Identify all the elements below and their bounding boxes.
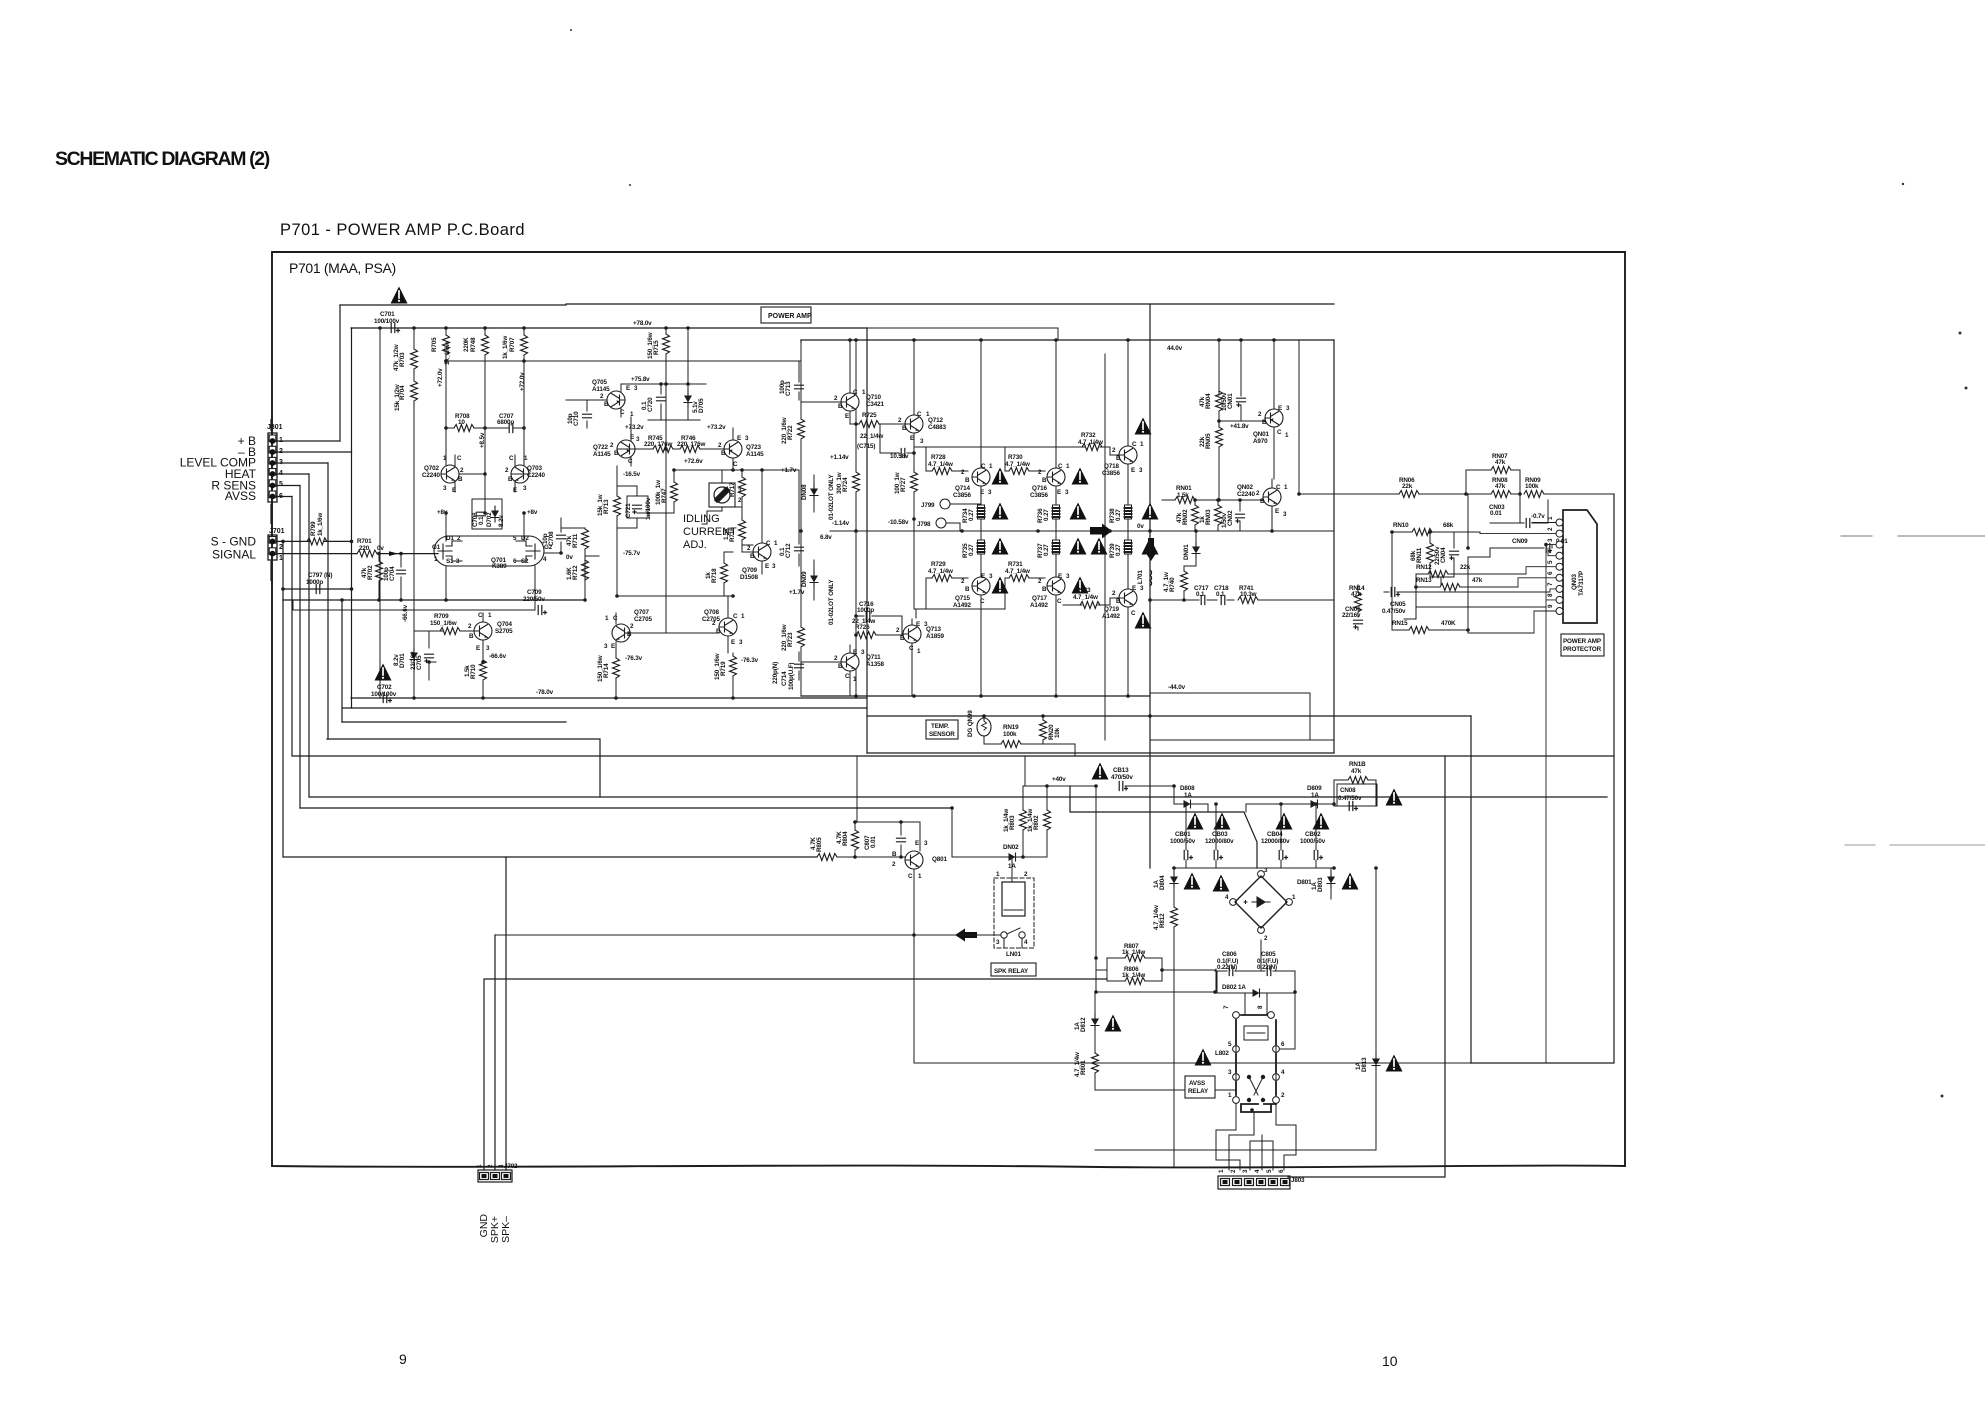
svg-text:R701: R701: [357, 538, 372, 545]
svg-text:0v: 0v: [566, 554, 573, 561]
wire temp row y716: [867, 715, 1471, 717]
svg-text:ADJ.: ADJ.: [683, 539, 707, 551]
svg-text:1: 1: [918, 873, 922, 880]
svg-text:Q711: Q711: [866, 654, 881, 661]
svg-text:C: C: [845, 673, 850, 680]
svg-text:E: E: [910, 435, 914, 442]
svg-text:D808: D808: [1180, 785, 1195, 792]
warnings caps row: [1187, 813, 1330, 830]
wire bus y756: [293, 755, 1614, 757]
resistor R728: [931, 454, 952, 475]
svg-text:470/50v: 470/50v: [1111, 774, 1133, 781]
resistor R724: [836, 424, 860, 531]
svg-text:15k_1/2w: 15k_1/2w: [394, 384, 401, 411]
resistor RN20: [1040, 716, 1062, 744]
thermistor DG QN99: [967, 710, 991, 737]
svg-text:68k: 68k: [1443, 522, 1454, 529]
svg-text:1: 1: [1292, 894, 1296, 901]
svg-text:PROTECTOR: PROTECTOR: [1563, 646, 1602, 653]
transistor Q710: [834, 340, 884, 424]
transistor Q714: [953, 453, 993, 500]
left arrow spk: [955, 929, 977, 942]
svg-text:P701 - POWER AMP P.C.Board: P701 - POWER AMP P.C.Board: [280, 221, 525, 239]
svg-text:47k: 47k: [1495, 483, 1506, 490]
svg-text:0.27: 0.27: [1115, 509, 1122, 521]
svg-text:SPK RELAY: SPK RELAY: [994, 968, 1029, 975]
svg-text:A1492: A1492: [1030, 602, 1048, 609]
svg-text:RN05: RN05: [1205, 433, 1212, 449]
svg-text:+40v: +40v: [1052, 776, 1066, 783]
capacitor CN05 label: [1382, 601, 1406, 615]
svg-text:220/50v: 220/50v: [523, 596, 545, 603]
resistor R719: [714, 653, 737, 698]
svg-text:220K: 220K: [463, 337, 470, 352]
wire inner box left x867: [866, 328, 868, 753]
svg-text:7: 7: [1223, 1005, 1230, 1009]
wire right net verticals: [1358, 494, 1548, 630]
svg-text:E: E: [476, 645, 480, 652]
svg-text:S - GND: S - GND: [211, 535, 257, 549]
wire +40v rail: [1023, 756, 1096, 810]
svg-text:1.5k: 1.5k: [723, 528, 730, 540]
wire temp sensor row: [984, 716, 1075, 756]
resistor RN10: [1392, 522, 1480, 536]
svg-text:RN1B: RN1B: [1349, 761, 1366, 768]
svg-text:C3856: C3856: [1030, 492, 1048, 499]
svg-text:220p(N): 220p(N): [772, 662, 779, 684]
svg-text:B: B: [750, 553, 755, 560]
wire -78v bottom rail: [351, 697, 867, 699]
transistor Q723: [718, 428, 764, 470]
svg-text:1A: 1A: [1153, 880, 1160, 888]
svg-text:0v: 0v: [1137, 523, 1144, 530]
svg-text:E: E: [1275, 508, 1279, 515]
wire RN02 row top: [1195, 499, 1263, 501]
svg-text:+73.2v: +73.2v: [625, 424, 644, 431]
svg-text:B: B: [716, 628, 721, 635]
resistor R703: [393, 328, 418, 376]
svg-text:D813: D813: [1361, 1057, 1368, 1072]
node label -66.6v h: [489, 653, 507, 660]
svg-text:220_176w: 220_176w: [677, 441, 705, 448]
svg-text:3: 3: [989, 573, 993, 580]
bridge D801: [1235, 876, 1287, 928]
wire Q705 emitter row: [621, 328, 706, 394]
svg-text:100k: 100k: [1525, 483, 1539, 490]
wire centre box right: [1333, 340, 1335, 753]
svg-text:1k_1/4w: 1k_1/4w: [1122, 949, 1145, 956]
svg-text:3: 3: [772, 563, 776, 570]
svg-text:1000p: 1000p: [857, 607, 874, 614]
node label 0v: [566, 554, 573, 561]
svg-text:E: E: [1278, 405, 1282, 412]
resistor RN19: [984, 724, 1043, 748]
resistor R727: [894, 447, 918, 519]
svg-text:1k: 1k: [705, 572, 712, 579]
svg-text:2: 2: [747, 545, 751, 552]
wire RN18 col: [1334, 780, 1376, 806]
resistor R812: [1153, 899, 1178, 944]
svg-text:R733: R733: [1076, 587, 1091, 594]
svg-text:22k: 22k: [1402, 483, 1413, 490]
resistor R807: [1107, 943, 1162, 962]
svg-text:0.22(N): 0.22(N): [1257, 964, 1277, 971]
node label -10.58v: [888, 519, 909, 526]
capacitor C712: [779, 536, 804, 566]
svg-text:B: B: [1116, 455, 1121, 462]
resistor R715: [647, 328, 670, 392]
resistor RN14: [1349, 585, 1365, 617]
svg-text:Q712: Q712: [928, 417, 943, 424]
svg-text:9: 9: [399, 1351, 407, 1367]
svg-text:10/50v: 10/50v: [1221, 392, 1228, 411]
svg-text:2: 2: [834, 395, 838, 402]
capacitor C806: [1215, 951, 1265, 976]
wires driver col: [617, 449, 801, 612]
resistor R725 value: [860, 433, 883, 440]
svg-text:2: 2: [896, 627, 900, 634]
resistor R701: [357, 538, 384, 557]
svg-text:C: C: [766, 540, 771, 547]
svg-text:1: 1: [488, 612, 492, 619]
svg-text:4.7_1w: 4.7_1w: [1163, 572, 1170, 592]
resistor R731: [1005, 561, 1030, 582]
svg-text:D705: D705: [698, 398, 705, 413]
resistor RN12: [1416, 564, 1526, 578]
svg-text:1: 1: [476, 1164, 483, 1168]
svg-text:C2240: C2240: [1237, 491, 1255, 498]
capacitor CN06: [1342, 606, 1363, 630]
svg-text:1: 1: [1218, 1169, 1225, 1173]
resistor R711: [566, 528, 589, 556]
striped resistor R734: [962, 505, 985, 523]
svg-text:+8v: +8v: [527, 509, 538, 516]
svg-text:1A: 1A: [1184, 792, 1192, 799]
svg-text:220: 220: [359, 545, 370, 552]
coil L701: [1137, 562, 1152, 593]
transistor Q709: [740, 470, 778, 581]
svg-text:RN13: RN13: [1416, 577, 1432, 584]
svg-text:3: 3: [634, 385, 638, 392]
svg-text:-16.5v: -16.5v: [623, 471, 641, 478]
svg-text:A1358: A1358: [866, 661, 884, 668]
svg-text:47k_1/2w: 47k_1/2w: [393, 344, 400, 371]
svg-text:CB02: CB02: [1305, 831, 1321, 838]
svg-text:R803: R803: [1009, 815, 1016, 830]
svg-text:R702: R702: [367, 565, 374, 580]
svg-text:3: 3: [739, 639, 743, 646]
TEMP SENSOR box: [926, 720, 958, 739]
warning Q718: [1135, 418, 1152, 435]
wire spk arrow row: [495, 857, 1012, 935]
svg-text:A1492: A1492: [1102, 613, 1120, 620]
svg-text:3: 3: [745, 435, 749, 442]
svg-text:Q713: Q713: [926, 626, 941, 633]
svg-text:5: 5: [279, 481, 283, 488]
resistor RN04: [1199, 391, 1223, 421]
warning R734: [992, 503, 1009, 520]
node label +41.8v: [1230, 423, 1249, 430]
warning Q714: [992, 468, 1009, 485]
svg-text:10: 10: [458, 419, 465, 426]
diode D802: [1217, 984, 1295, 997]
svg-text:1A: 1A: [1311, 792, 1319, 799]
warning triangle C702: [375, 664, 392, 681]
svg-text:B: B: [1260, 498, 1265, 505]
svg-text:100/100v: 100/100v: [371, 691, 397, 698]
resistor R806: [1107, 966, 1162, 985]
resistor R745: [644, 435, 673, 453]
svg-text:E: E: [1132, 585, 1136, 592]
wire output to right: [1271, 506, 1273, 531]
svg-text:68k: 68k: [1410, 550, 1417, 561]
svg-text:G1: G1: [432, 544, 441, 551]
down arrow output: [1145, 538, 1158, 561]
wire 78v jog to 44v rail: [867, 328, 1299, 494]
wire Q707-Q708 bases: [630, 392, 719, 633]
svg-text:+41.8v: +41.8v: [1230, 423, 1249, 430]
svg-text:5: 5: [1547, 560, 1554, 564]
svg-text:CN09: CN09: [1512, 538, 1528, 545]
svg-text:D1508: D1508: [740, 574, 758, 581]
svg-text:E: E: [630, 434, 634, 441]
svg-text:C2705: C2705: [634, 616, 652, 623]
svg-text:1u/100v: 1u/100v: [645, 497, 652, 520]
svg-text:C: C: [980, 598, 985, 605]
svg-text:Q714: Q714: [955, 485, 970, 492]
node label +1.7v lower: [789, 589, 805, 596]
svg-text:2: 2: [961, 578, 965, 585]
svg-text:150_1/6w: 150_1/6w: [597, 655, 604, 682]
node label +40v: [1052, 776, 1066, 783]
svg-text:R729: R729: [931, 561, 946, 568]
svg-text:C: C: [1058, 463, 1063, 470]
node label +72.0v: [437, 368, 526, 391]
svg-text:1: 1: [1066, 463, 1070, 470]
node label -76.3v q707: [625, 655, 643, 662]
svg-text:RN19: RN19: [1003, 724, 1019, 731]
svg-text:100k: 100k: [1003, 731, 1017, 738]
svg-text:0.1: 0.1: [1216, 591, 1225, 598]
warning D804: [1184, 873, 1201, 890]
svg-text:100_1w: 100_1w: [894, 472, 901, 494]
svg-text:C4883: C4883: [928, 424, 946, 431]
svg-text:1: 1: [524, 455, 528, 462]
svg-text:1k_1/4w: 1k_1/4w: [1027, 809, 1034, 832]
svg-text:22_1/4w: 22_1/4w: [852, 618, 875, 625]
connector J803: [1218, 1176, 1305, 1189]
svg-text:1: 1: [989, 463, 993, 470]
resistor R801: [1074, 1042, 1099, 1090]
svg-text:QN01: QN01: [1253, 431, 1269, 438]
node label +8.5v: [479, 432, 486, 448]
svg-text:100/100v: 100/100v: [374, 318, 400, 325]
transistor Q715: [953, 565, 993, 610]
svg-text:B: B: [469, 633, 474, 640]
svg-text:R703: R703: [399, 352, 406, 367]
SPK RELAY box: [991, 963, 1036, 976]
node label -75.7v: [623, 550, 641, 557]
wire C705 base: [414, 631, 443, 662]
svg-text:1A: 1A: [1074, 1022, 1081, 1030]
svg-text:L802: L802: [1215, 1050, 1229, 1057]
svg-text:R707: R707: [509, 337, 516, 352]
svg-text:2: 2: [1112, 590, 1116, 597]
node label +1.7v: [781, 467, 797, 474]
svg-text:C: C: [981, 463, 986, 470]
svg-text:3: 3: [1286, 405, 1290, 412]
svg-text:6: 6: [1547, 571, 1554, 575]
node label +75.8v: [631, 376, 650, 383]
svg-text:3: 3: [1547, 538, 1554, 542]
svg-text:3: 3: [1140, 585, 1144, 592]
resistor R729: [928, 561, 953, 582]
diode DN01: [1183, 531, 1200, 566]
svg-text:S2705: S2705: [495, 628, 513, 635]
junction dots output: [799, 338, 1130, 698]
svg-text:100p: 100p: [383, 567, 390, 581]
svg-text:C: C: [1057, 598, 1062, 605]
svg-text:150_1/6w: 150_1/6w: [430, 620, 457, 627]
svg-text:1: 1: [1284, 484, 1288, 491]
svg-text:4: 4: [279, 470, 283, 477]
svg-text:+1.14v: +1.14v: [830, 454, 849, 461]
node label -1.14v: [832, 520, 850, 527]
junction dots QN: [1148, 338, 1276, 718]
warning R737 pair: [1070, 538, 1108, 555]
resistor RN03: [1199, 500, 1222, 531]
node label -76.3v q708: [741, 657, 759, 664]
wire R806 R807 loop: [1096, 958, 1215, 981]
svg-text:A1145: A1145: [593, 451, 611, 458]
resistor RN02: [1176, 500, 1199, 531]
svg-text:R715: R715: [653, 340, 660, 355]
scan artifacts right edge: [1841, 536, 1985, 845]
J801 pin labels: [180, 434, 257, 562]
svg-text:QN03: QN03: [1571, 574, 1578, 590]
svg-text:2: 2: [961, 469, 965, 476]
svg-text:C805: C805: [1261, 951, 1276, 958]
svg-text:+1.7v: +1.7v: [781, 467, 797, 474]
node label +8v: [437, 509, 538, 516]
striped resistor R735: [962, 540, 985, 558]
wire bus y808: [300, 807, 952, 809]
transistor Q705: [592, 379, 638, 418]
relay contacts LN01: [1001, 928, 1025, 938]
svg-text:0.01: 0.01: [870, 836, 877, 848]
svg-text:22/16v: 22/16v: [1342, 612, 1361, 619]
capacitor CB02: [1300, 831, 1326, 860]
svg-text:C721: C721: [625, 503, 632, 518]
wire centre box top: [801, 339, 1334, 341]
svg-text:Q703: Q703: [527, 465, 542, 472]
svg-text:1: 1: [279, 555, 283, 562]
resistor R802: [1027, 809, 1051, 857]
svg-text:P701 (MAA, PSA): P701 (MAA, PSA): [289, 260, 396, 276]
svg-text:C806: C806: [1222, 951, 1237, 958]
svg-text:3: 3: [988, 489, 992, 496]
transistor QN02: [1237, 479, 1288, 531]
warning R738: [1142, 503, 1159, 520]
svg-text:-10.58v: -10.58v: [888, 519, 909, 526]
svg-text:Q705: Q705: [592, 379, 607, 386]
svg-text:C: C: [908, 873, 913, 880]
capacitor CB03: [1205, 831, 1234, 860]
svg-text:1: 1: [996, 871, 1000, 878]
svg-text:B: B: [614, 450, 619, 457]
svg-text:2: 2: [630, 623, 634, 630]
svg-text:1: 1: [917, 648, 921, 655]
svg-text:R748: R748: [470, 337, 477, 352]
resistor R714: [597, 655, 620, 698]
svg-text:2: 2: [460, 467, 464, 474]
svg-text:0.1: 0.1: [779, 547, 786, 556]
svg-text:8: 8: [1257, 1005, 1264, 1009]
svg-text:C3421: C3421: [866, 401, 884, 408]
svg-text:2: 2: [279, 544, 283, 551]
node label -78.0v: [536, 689, 554, 696]
svg-text:4.7K: 4.7K: [810, 837, 817, 850]
svg-text:J798: J798: [917, 521, 931, 528]
svg-text:4: 4: [543, 556, 547, 563]
resistor R710: [464, 660, 487, 698]
svg-text:C: C: [509, 455, 514, 462]
svg-text:D801: D801: [1297, 879, 1312, 886]
svg-text:D702: D702: [486, 512, 493, 527]
svg-text:C710: C710: [573, 411, 580, 426]
svg-text:47k: 47k: [1176, 512, 1183, 523]
svg-text:10p: 10p: [542, 533, 549, 544]
svg-text:4: 4: [1024, 939, 1028, 946]
svg-text:220_1/6w: 220_1/6w: [781, 624, 788, 651]
wire L701 R740: [1150, 531, 1196, 600]
svg-text:B: B: [508, 476, 513, 483]
connector J702: [478, 1163, 518, 1182]
svg-text:R732: R732: [1081, 432, 1096, 439]
svg-text:R728: R728: [931, 454, 946, 461]
svg-text:6: 6: [279, 493, 283, 500]
svg-text:CN04: CN04: [1440, 547, 1447, 563]
junction dots psu: [1021, 784, 1378, 1112]
capacitor CN03: [1489, 504, 1548, 528]
svg-text:3: 3: [636, 436, 640, 443]
svg-text:POWER AMP: POWER AMP: [1563, 638, 1601, 645]
capacitor C716: [856, 601, 880, 621]
IC QN03: [1563, 510, 1597, 623]
svg-text:Q708: Q708: [704, 609, 719, 616]
svg-text:R805: R805: [816, 837, 823, 852]
svg-text:B: B: [1116, 598, 1121, 605]
wire centre box bottom: [867, 752, 1334, 754]
svg-text:DN08: DN08: [801, 484, 808, 500]
vertical buses output: [801, 340, 1128, 696]
svg-text:Q715: Q715: [955, 595, 970, 602]
svg-text:J801: J801: [267, 424, 283, 431]
svg-text:B: B: [838, 403, 843, 410]
svg-text:C701: C701: [380, 311, 395, 318]
node label +72.6v: [684, 458, 703, 465]
wire centre box left stub: [800, 340, 802, 342]
svg-text:47k: 47k: [1472, 577, 1483, 584]
svg-text:J803: J803: [1291, 1177, 1305, 1184]
svg-text:J702: J702: [504, 1163, 518, 1170]
svg-text:2: 2: [834, 655, 838, 662]
svg-text:-76.3v: -76.3v: [625, 655, 643, 662]
svg-text:3: 3: [443, 485, 447, 492]
svg-text:2: 2: [1256, 490, 1260, 497]
svg-text:1: 1: [1285, 432, 1289, 439]
wire relay to J803: [1216, 1104, 1296, 1170]
